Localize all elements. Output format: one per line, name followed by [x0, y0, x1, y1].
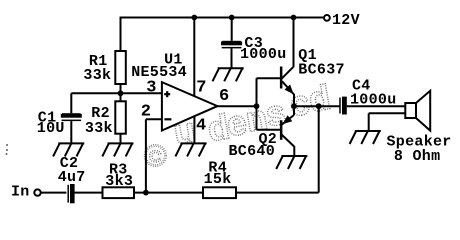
svg-text:3k3: 3k3	[105, 173, 133, 190]
svg-text:BC637: BC637	[298, 62, 345, 79]
svg-text:12V: 12V	[332, 12, 360, 29]
svg-text:33k: 33k	[85, 120, 113, 137]
svg-text:NE5534: NE5534	[131, 64, 187, 81]
svg-text:1000u: 1000u	[350, 91, 397, 108]
svg-text:C: C	[149, 147, 161, 166]
svg-text:15k: 15k	[204, 171, 232, 188]
svg-text:4u7: 4u7	[58, 169, 86, 186]
svg-text:7: 7	[196, 79, 207, 98]
svg-text:4: 4	[196, 117, 207, 136]
svg-text:3: 3	[146, 79, 157, 98]
svg-text:8 Ohm: 8 Ohm	[394, 148, 441, 165]
svg-text:10U: 10U	[37, 120, 65, 137]
svg-text:33k: 33k	[83, 67, 111, 84]
svg-text:1000u: 1000u	[240, 46, 287, 63]
svg-text:6: 6	[219, 87, 230, 106]
svg-text:In: In	[11, 184, 30, 201]
svg-text:BC640: BC640	[229, 143, 276, 160]
